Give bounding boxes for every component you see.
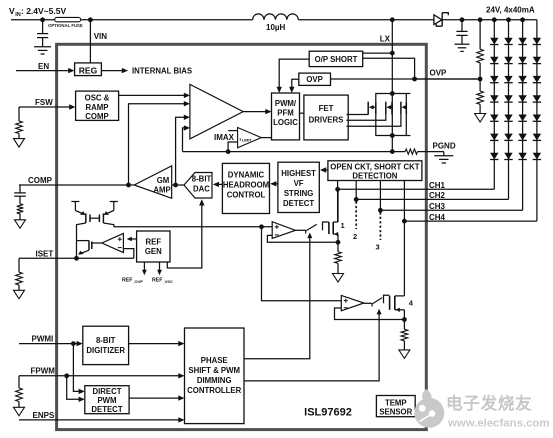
svg-text:PWM: PWM (97, 396, 116, 405)
junction OVP tap (478, 77, 483, 82)
wire DHC to DAC (217, 183, 223, 185)
wire CH3 stub (379, 181, 381, 211)
svg-text:ISET: ISET (36, 250, 54, 259)
wire FPWM to direct detect (67, 376, 79, 400)
junction CH3 (378, 208, 383, 213)
wire CH1 (338, 188, 495, 190)
svg-text:ISL97692: ISL97692 (304, 407, 352, 419)
svg-text:GEN: GEN (145, 247, 162, 256)
wire gate drive 1 (347, 114, 369, 116)
svg-text:OVP: OVP (306, 75, 322, 84)
svg-text:DETECT: DETECT (283, 199, 314, 208)
svg-text:COMP: COMP (85, 112, 108, 121)
wire EN input (16, 70, 69, 72)
junction sense ILIMIT (226, 149, 231, 154)
wire REF_OVP out (143, 262, 145, 272)
svg-text:COMP: COMP (28, 176, 53, 185)
wire REFGEN to U2+ (130, 238, 137, 240)
svg-text:8-BIT: 8-BIT (192, 175, 212, 184)
wire HVFSD to DHC (274, 183, 278, 185)
wire COMP input (19, 184, 129, 186)
svg-text:INTERNAL BIAS: INTERNAL BIAS (132, 66, 192, 75)
svg-text:DRIVERS: DRIVERS (309, 116, 344, 125)
wire gate drive 2 (347, 115, 386, 121)
svg-text:TEMP: TEMP (385, 398, 407, 407)
svg-text:24V, 4x40mA: 24V, 4x40mA (486, 6, 535, 15)
resistor R_ovp2 (479, 79, 481, 91)
junction LX tap on rail (390, 17, 395, 22)
transistor Q1 power FET (367, 102, 369, 115)
junction GM DAC node (173, 183, 178, 188)
wire OP-SHORT to LX (363, 52, 393, 54)
ground R_comp (15, 220, 26, 229)
svg-text:PFM: PFM (277, 109, 293, 118)
svg-text:VIN: VIN (94, 32, 108, 41)
wire OP-SHORT to PWM logic (279, 59, 309, 87)
wire OP-SHORT to OVP net (363, 58, 415, 79)
wire CH2 (356, 198, 508, 200)
svg-text:ENPS: ENPS (33, 411, 55, 420)
svg-text:OPTIONAL FUSE: OPTIONAL FUSE (48, 23, 83, 28)
wire sense riser to U1 (183, 128, 185, 152)
junction OVP divider top (478, 17, 483, 22)
capacitor C_comp (19, 185, 21, 193)
LED string 2 (508, 20, 510, 200)
watermark logo elecfans (414, 389, 444, 428)
svg-text:OSC &: OSC & (85, 94, 110, 103)
net current sense line (183, 151, 406, 153)
wire mirror gate bridge (90, 217, 99, 219)
svg-text:REG: REG (79, 65, 98, 75)
block FET DRIVERS (304, 95, 348, 140)
wire mirror output (114, 226, 272, 228)
junction M4 source (402, 317, 407, 322)
wire dim ctrl 4 (244, 312, 379, 381)
wire REF_VSC out (159, 262, 161, 272)
svg-text:CONTROL: CONTROL (227, 190, 266, 199)
svg-text:_OVP: _OVP (131, 279, 143, 284)
wire OVP to PWM logic (292, 79, 299, 87)
transistor M1 sink (328, 222, 330, 234)
wire FSW input (19, 106, 70, 108)
resistor R_s4 (403, 320, 405, 330)
ground C2 (455, 43, 470, 45)
wire M1 source (337, 234, 339, 242)
wire LX drop into IC (391, 20, 393, 53)
wire CH4 sense (403, 181, 405, 222)
svg-text:PWMI: PWMI (32, 335, 54, 344)
wire VIN pin drop (89, 20, 91, 63)
block PHASE SHIFT & PWM DIMMING CONTROLLER (185, 328, 245, 424)
wire ILIMIT out (261, 137, 271, 139)
svg-text:FPWM: FPWM (31, 367, 56, 376)
junction VIN pin node (88, 17, 93, 22)
resistor R_s1 (337, 242, 339, 252)
wire CH2 stub (355, 181, 357, 200)
wire IMAX ref stub (228, 130, 237, 132)
wire ENPS input (19, 419, 179, 421)
op-amp U2 iset (102, 233, 124, 252)
op-amp GM AMP (134, 166, 172, 199)
wire CH3 (380, 209, 522, 211)
junction CH2 (354, 197, 359, 202)
wire M4 source (403, 310, 405, 320)
wire COMP riser to U1 (129, 104, 185, 185)
svg-text:REF: REF (122, 278, 132, 284)
svg-text:STRING: STRING (284, 189, 313, 198)
junction LX source rail (390, 133, 395, 138)
wire M4 drain (403, 221, 405, 296)
wire OSC to U1 (119, 94, 184, 96)
block REF GEN (137, 231, 170, 262)
capacitor C1 input (42, 20, 44, 34)
wire digitizer out (129, 343, 179, 345)
svg-text:SENSOR: SENSOR (379, 407, 412, 416)
ground OVP divider (475, 114, 486, 123)
ground R_s1 (333, 274, 344, 283)
junction LX drain rail (390, 91, 395, 96)
junction CH4 (402, 219, 407, 224)
svg-text:HIGHEST: HIGHEST (281, 169, 316, 178)
LED string 4 (536, 20, 538, 221)
wire OPENCKT to HVFSD (324, 169, 328, 171)
wire OVP block to pin (331, 78, 481, 80)
svg-text:GM: GM (157, 176, 170, 185)
wire INTERNAL BIAS (101, 70, 122, 72)
svg-text:AMP: AMP (153, 186, 170, 195)
wire CH2 dashed (355, 202, 357, 230)
switch SW4 (364, 302, 372, 304)
wire LX vertical (391, 53, 393, 152)
svg-text:HEADROOM: HEADROOM (223, 180, 269, 189)
svg-text:www.elecfans.com: www.elecfans.com (447, 417, 550, 429)
junction CH1 (335, 187, 340, 192)
resistor R_fsw (18, 107, 20, 121)
block TEMP SENSOR (376, 396, 415, 417)
wire U2 out to gate (92, 242, 102, 244)
resistor R_comp (17, 204, 24, 214)
svg-text:DYNAMIC: DYNAMIC (228, 170, 265, 179)
ground R_s4 (399, 350, 410, 359)
svg-text:OPEN CKT, SHORT CKT: OPEN CKT, SHORT CKT (330, 162, 419, 171)
op-amp U4 sink4 (341, 295, 364, 310)
svg-text:LOGIC: LOGIC (273, 118, 298, 127)
block HIGHEST VF STRING DETECT (278, 162, 319, 212)
resistor R_iset (18, 258, 20, 272)
wire GM node riser to U1 (176, 117, 184, 185)
wire PWM logic to drivers (300, 112, 304, 114)
svg-text:DIRECT: DIRECT (92, 387, 121, 396)
resistor R_fpwm (18, 376, 20, 388)
svg-text:LIMIT: LIMIT (242, 138, 252, 142)
svg-text:CONTROLLER: CONTROLLER (187, 386, 242, 395)
capacitor C2 output (461, 20, 463, 32)
IC boundary ISL97692 (57, 44, 427, 429)
comparator U1 main (190, 84, 243, 138)
svg-text:REF: REF (152, 278, 162, 284)
wire FET drain rail (375, 93, 410, 95)
diode D1 schottky (434, 15, 442, 25)
svg-text:10µH: 10µH (266, 23, 286, 32)
comparator ILIMIT (238, 128, 262, 148)
svg-text:2: 2 (353, 232, 357, 241)
wire CH1 sense (337, 181, 339, 223)
svg-text:REF: REF (145, 238, 161, 247)
junction output cap node (460, 17, 465, 22)
svg-text:EN: EN (38, 62, 49, 71)
junction sink ref node (259, 224, 264, 229)
wire GM apex to COMP (129, 184, 135, 186)
net VIN input rail (11, 19, 253, 21)
block DIRECT PWM DETECT (85, 386, 129, 414)
wire gate drive 3 (347, 115, 401, 127)
svg-text:_VSC: _VSC (161, 279, 173, 284)
svg-text:PWM/: PWM/ (275, 99, 297, 108)
svg-text:1: 1 (341, 221, 345, 230)
block 8-BIT DIGITIZER (83, 326, 129, 364)
switch SW1 (295, 229, 305, 231)
svg-text:电子发烧友: 电子发烧友 (446, 393, 533, 413)
wire FET source rail (375, 135, 410, 137)
transistor Q2 power FET (385, 102, 387, 115)
svg-text:O/P SHORT: O/P SHORT (315, 55, 358, 64)
transistor Q5 PMOS left (74, 202, 76, 211)
wire ILIMIT lower input (228, 142, 238, 152)
svg-text:FET: FET (319, 104, 334, 113)
svg-text:DETECT: DETECT (91, 405, 122, 414)
transistor Q7 NMOS iset (88, 241, 90, 251)
resistor R_sense (405, 149, 417, 154)
junction FPWM (64, 373, 69, 378)
wire PWMI input (19, 343, 77, 345)
svg-text:DIMMING: DIMMING (197, 376, 232, 385)
svg-text:IMAX: IMAX (214, 133, 235, 142)
wire U2- feedback (123, 249, 133, 259)
wire direct detect out (129, 397, 179, 399)
junction LX opshort (390, 51, 395, 56)
svg-text:CH4: CH4 (429, 213, 446, 222)
svg-text:FSW: FSW (35, 98, 53, 107)
wire OVP feedback (415, 78, 481, 80)
junction M1 source (336, 240, 341, 245)
wire PGND out (418, 151, 444, 153)
svg-text:V: V (9, 6, 15, 16)
block DYNAMIC HEADROOM CONTROL (222, 163, 269, 213)
ground R_iset (14, 290, 25, 299)
block OVP (299, 73, 331, 85)
wire U1 out to PWM logic (243, 111, 265, 113)
op-amp U3 sink1 (272, 222, 295, 239)
transistor Q3 power FET (400, 102, 402, 115)
svg-text:RAMP: RAMP (86, 103, 109, 112)
block OSC & RAMP COMP (76, 91, 119, 120)
wire GM to DAC (172, 184, 184, 186)
junction input cap node (40, 17, 45, 22)
wire U4 feedback (335, 308, 405, 320)
svg-text:PGND: PGND (433, 142, 456, 151)
wire mirror vdd stubs (71, 201, 79, 203)
fuse F1 optional (55, 17, 81, 21)
inductor L1 10uH (253, 14, 299, 20)
svg-text:8-BIT: 8-BIT (96, 336, 116, 345)
block PWM/PFM LOGIC (272, 93, 300, 140)
wire ref to op4 (262, 227, 342, 301)
svg-text:3: 3 (376, 243, 380, 252)
svg-text:IN: IN (15, 12, 21, 18)
DAC 8-BIT (184, 173, 212, 199)
wire REFGEN to DAC (167, 204, 202, 269)
svg-text:VF: VF (294, 179, 304, 188)
junction ISET node (74, 256, 79, 261)
transistor M4 sink (389, 296, 391, 310)
junction sense LX (390, 149, 395, 154)
wire ISET input (19, 257, 134, 259)
wire dim ctrl 1 (244, 236, 310, 359)
transistor Q6 PMOS right (113, 202, 115, 211)
junction PWMI (71, 341, 76, 346)
ground PGND (434, 155, 453, 157)
wire U3 feedback (267, 235, 338, 242)
svg-text:: 2.4V~5.5V: : 2.4V~5.5V (21, 6, 66, 16)
ground R_fpwm (14, 407, 25, 416)
wire CH4 (404, 220, 537, 222)
ground C1 (34, 46, 51, 48)
ground R_fsw (14, 139, 25, 148)
svg-text:SHIFT & PWM: SHIFT & PWM (188, 366, 240, 375)
wire CH3 dashed (379, 212, 381, 240)
svg-text:PHASE: PHASE (201, 356, 228, 365)
wire FPWM input (19, 375, 179, 377)
block OPEN CKT SHORT CKT DETECTION (328, 161, 422, 181)
svg-text:CH3: CH3 (429, 202, 446, 211)
LED string 1 (493, 20, 495, 190)
LED string 3 (522, 20, 524, 211)
resistor R_ovp1 (479, 20, 481, 49)
svg-text:DETECTION: DETECTION (352, 171, 397, 180)
svg-text:OVP: OVP (430, 68, 448, 77)
svg-text:CH1: CH1 (429, 181, 446, 190)
svg-text:CH2: CH2 (429, 191, 446, 200)
svg-text:DAC: DAC (193, 184, 210, 193)
junction COMP node (126, 183, 131, 188)
block O/P SHORT (309, 51, 363, 66)
junction OVP net (412, 77, 417, 82)
wire PWMI to direct detect (73, 344, 79, 392)
wire M1 drain (337, 189, 339, 222)
svg-text:DIGITIZER: DIGITIZER (86, 346, 125, 355)
regulator REG (75, 63, 102, 76)
net output rail 24V (462, 19, 537, 21)
svg-text:LX: LX (380, 35, 391, 44)
